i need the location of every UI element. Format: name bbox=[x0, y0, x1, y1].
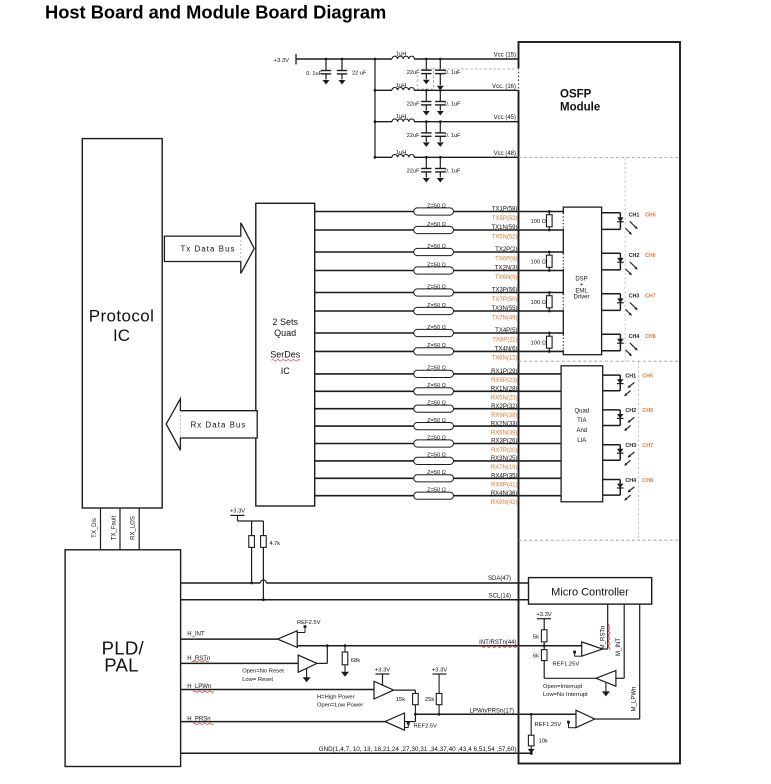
node INT junction A bbox=[326, 644, 329, 647]
transmission line Z=50 (RX 2) bbox=[414, 388, 454, 395]
svg-text:CH6: CH6 bbox=[642, 408, 653, 414]
incident light arrow CH1 a bbox=[630, 382, 634, 386]
wire H_LPWn bbox=[181, 689, 374, 691]
svg-text:RX5P(23): RX5P(23) bbox=[491, 378, 517, 384]
svg-text:TX3P(56): TX3P(56) bbox=[492, 288, 518, 294]
svg-text:RX7N(19): RX7N(19) bbox=[491, 465, 518, 471]
emission arrow CH3 b bbox=[626, 309, 630, 313]
dotted pin edge DSP pair 1 bbox=[562, 213, 564, 229]
svg-text:CH2: CH2 bbox=[629, 253, 640, 259]
node Vcc branch 3 bbox=[374, 120, 377, 123]
wire laser loop CH2 bottom bbox=[602, 269, 621, 271]
emission arrow CH3 a bbox=[630, 302, 636, 308]
buffer U9 (LPW) bbox=[374, 681, 394, 699]
capacitor 0.1uF C6 bbox=[439, 90, 441, 101]
resistor 100 Ohm (pair 3) bbox=[548, 293, 550, 296]
resistor 100 Ohm (pair 4) bbox=[548, 333, 550, 336]
svg-text:1uH: 1uH bbox=[396, 150, 406, 156]
svg-text:RX2P(32): RX2P(32) bbox=[491, 404, 517, 410]
node branch 2 cap B bbox=[439, 89, 442, 92]
incident light arrow CH1 b bbox=[626, 391, 630, 395]
wire photodiode loop CH3 top bbox=[603, 444, 621, 446]
dashed partition line (top of Tx optics) bbox=[519, 157, 681, 159]
capacitor 0.1uF (input bypass) bbox=[325, 59, 327, 71]
node 25k bottom bbox=[438, 713, 441, 716]
inductor 1uH L2 bbox=[392, 88, 414, 91]
wire TX_Fault bbox=[119, 508, 121, 550]
svg-text:22uF: 22uF bbox=[407, 102, 420, 108]
svg-text:RX3N(25): RX3N(25) bbox=[491, 456, 518, 462]
svg-text:CH7: CH7 bbox=[645, 294, 656, 300]
svg-text:TX_Dis: TX_Dis bbox=[92, 518, 98, 538]
wire laser loop CH4 top bbox=[602, 333, 621, 335]
node branch 4 cap B bbox=[439, 156, 442, 159]
laser diode CH3 bbox=[617, 298, 624, 302]
wire laser loop CH3 top bbox=[602, 293, 621, 295]
svg-text:CH2: CH2 bbox=[625, 408, 636, 414]
node termination bottom 2 bbox=[548, 269, 551, 272]
node branch 2 cap A bbox=[425, 89, 428, 92]
svg-text:Z=50 Ω: Z=50 Ω bbox=[427, 284, 446, 290]
svg-text:Z=50 Ω: Z=50 Ω bbox=[427, 401, 446, 407]
svg-text:15k: 15k bbox=[396, 697, 405, 703]
wire laser loop CH1 right bbox=[619, 213, 621, 230]
transmission line Z=50 (RX 5) bbox=[414, 440, 454, 447]
dotted pin edge DSP pair 3 bbox=[562, 294, 564, 310]
wire laser loop CH2 top bbox=[602, 252, 621, 254]
node divider junction bbox=[543, 644, 546, 647]
wire SCL pullup lead bbox=[262, 547, 264, 599]
wire photodiode loop CH4 bottom bbox=[603, 494, 621, 496]
node termination bottom 4 bbox=[548, 350, 551, 353]
node termination bottom 3 bbox=[548, 310, 551, 313]
svg-text:Rx Data Bus: Rx Data Bus bbox=[191, 421, 247, 430]
svg-text:5k: 5k bbox=[533, 635, 539, 641]
svg-text:Module: Module bbox=[560, 102, 600, 114]
transmission line Z=50 (TX3P) bbox=[414, 289, 454, 296]
svg-text:CH8: CH8 bbox=[645, 334, 656, 340]
svg-text:0. 1uF: 0. 1uF bbox=[445, 70, 461, 76]
wire RX_LOS bbox=[138, 508, 140, 550]
svg-text:TIA: TIA bbox=[577, 418, 586, 424]
wire TX_Dis bbox=[100, 508, 102, 550]
svg-text:+3.3V: +3.3V bbox=[432, 668, 447, 674]
node 15k bottom bbox=[414, 713, 417, 716]
wire photodiode loop CH2 right bbox=[619, 410, 621, 426]
wire RX trace 2 bbox=[315, 390, 561, 392]
wire U11 output to MC bbox=[603, 648, 608, 650]
svg-text:PAL: PAL bbox=[104, 655, 139, 676]
Micro Controller box U4 bbox=[529, 578, 652, 605]
wire photodiode loop CH1 bottom bbox=[603, 390, 621, 392]
wire laser loop CH4 right bbox=[619, 334, 621, 351]
svg-text:RX6P(38): RX6P(38) bbox=[491, 413, 517, 419]
wire H_PRSn bbox=[181, 721, 385, 723]
svg-text:Z=50 Ω: Z=50 Ω bbox=[427, 262, 446, 268]
svg-text:TX2N(3): TX2N(3) bbox=[495, 266, 518, 272]
Protocol IC box U1 bbox=[82, 139, 162, 508]
svg-text:REF1.25V: REF1.25V bbox=[535, 722, 562, 728]
svg-text:Z=50 Ω: Z=50 Ω bbox=[427, 383, 446, 389]
svg-text:CH4: CH4 bbox=[629, 334, 640, 340]
wire vertical Vcc feed rail bbox=[374, 59, 376, 157]
dashed extension line to module bbox=[434, 68, 519, 70]
svg-text:M_LPWn: M_LPWn bbox=[631, 687, 637, 712]
capacitor 0.1uF C8 bbox=[439, 122, 441, 133]
transmission line Z=50 (TX2P) bbox=[414, 248, 454, 255]
svg-text:CH4: CH4 bbox=[625, 478, 636, 484]
wire INT/RSTn net bbox=[297, 645, 582, 647]
incident light arrow CH3 a bbox=[630, 452, 634, 456]
svg-text:Z=50 Ω: Z=50 Ω bbox=[427, 222, 446, 228]
svg-text:22uF: 22uF bbox=[407, 70, 420, 76]
svg-text:TX6P(8): TX6P(8) bbox=[495, 256, 517, 262]
node input cap 2 bbox=[341, 58, 344, 61]
transmission line Z=50 (RX 4) bbox=[414, 423, 454, 430]
node termination bottom 1 bbox=[548, 229, 551, 232]
resistor 4.7k (SCL pullup) bbox=[261, 536, 267, 548]
wire TX4N trace bbox=[315, 350, 564, 352]
incident light arrow CH2 b bbox=[626, 425, 630, 429]
svg-text:0. 1uF: 0. 1uF bbox=[445, 102, 461, 108]
transmission line Z=50 (TX4N) bbox=[414, 348, 454, 355]
svg-text:Vcc (48): Vcc (48) bbox=[494, 151, 516, 157]
svg-text:IC: IC bbox=[281, 366, 291, 376]
wire U13 output to MC bbox=[595, 718, 640, 720]
photodiode CH4 bbox=[617, 484, 624, 488]
svg-text:Z=50 Ω: Z=50 Ω bbox=[427, 488, 446, 494]
wire SDA pullup lead bbox=[251, 547, 253, 583]
incident light arrow CH4 a bbox=[630, 487, 634, 491]
wire 6k to U12 output bbox=[543, 661, 545, 679]
wire U9 output bbox=[394, 689, 416, 691]
wire TX1P trace bbox=[315, 211, 564, 213]
dotted segment on module edge (Vcc group) bbox=[517, 68, 519, 90]
svg-text:M_RSTn: M_RSTn bbox=[600, 626, 606, 650]
wire Vcc branch 3 bbox=[375, 121, 392, 123]
svg-text:+3.3V: +3.3V bbox=[536, 612, 551, 618]
wire RX trace 3 bbox=[315, 408, 561, 410]
ground stub U12 bbox=[605, 683, 607, 692]
capacitor 22uF C7 bbox=[425, 122, 427, 133]
resistor 68k bbox=[344, 646, 346, 652]
svg-text:Low= Reset: Low= Reset bbox=[242, 677, 273, 683]
capacitor 22uF (input bulk) bbox=[341, 59, 343, 71]
svg-text:TX3N(55): TX3N(55) bbox=[491, 306, 517, 312]
REF2.5V tap on U10 bbox=[405, 727, 409, 729]
svg-text:25k: 25k bbox=[425, 697, 434, 703]
wire photodiode loop CH4 right bbox=[619, 480, 621, 496]
transmission line Z=50 (TX1N) bbox=[414, 226, 454, 233]
transmission line Z=50 (TX1P) bbox=[414, 208, 454, 215]
svg-text:Low=No Interrupt: Low=No Interrupt bbox=[543, 692, 588, 698]
wire RX trace 6 bbox=[315, 460, 561, 462]
node branch 1 cap A bbox=[425, 58, 428, 61]
svg-text:CH7: CH7 bbox=[642, 443, 653, 449]
svg-text:Open=No Reset: Open=No Reset bbox=[242, 669, 284, 675]
svg-text:+3.3V: +3.3V bbox=[274, 58, 289, 64]
wire RX trace 7 bbox=[315, 477, 561, 479]
node Vcc branch 1 bbox=[374, 58, 377, 61]
dotted pin edge DSP pair 2 bbox=[562, 254, 564, 270]
wire GND bus bbox=[181, 752, 532, 754]
node INT junction B bbox=[344, 644, 347, 647]
wire Vcc branch 2 bbox=[375, 89, 392, 91]
Rx Data Bus arrow bbox=[166, 399, 257, 451]
wire laser loop CH4 bottom bbox=[602, 350, 621, 352]
emission arrow CH1 b bbox=[626, 228, 630, 232]
emission arrow CH4 a bbox=[630, 343, 636, 349]
svg-text:68k: 68k bbox=[351, 658, 360, 664]
svg-text:LIA: LIA bbox=[577, 438, 586, 444]
svg-text:4.7k: 4.7k bbox=[270, 541, 281, 547]
wire H_INT bbox=[181, 638, 278, 640]
svg-text:6k: 6k bbox=[533, 654, 539, 660]
svg-text:CH1: CH1 bbox=[625, 373, 636, 379]
photodiode CH2 bbox=[617, 414, 624, 418]
svg-text:Z=50 Ω: Z=50 Ω bbox=[427, 303, 446, 309]
svg-text:CH5: CH5 bbox=[645, 213, 656, 219]
dotted pin edge DSP pair 4 bbox=[562, 335, 564, 350]
emission arrow CH4 b bbox=[626, 350, 630, 354]
ground stub U8 bbox=[306, 669, 308, 678]
wire TX1N trace bbox=[315, 229, 564, 231]
wire +3.3V rail bbox=[296, 58, 375, 60]
PLD/PAL box U3 bbox=[65, 550, 181, 767]
comparator U11 (M_RSTn) bbox=[582, 642, 603, 656]
resistor 4.7k (SDA pullup) bbox=[249, 536, 255, 548]
node input cap 1 bbox=[325, 58, 328, 61]
OSFP Module outline bbox=[519, 42, 681, 764]
comparator U7 (INT, output to host) bbox=[278, 631, 298, 648]
wire Vcc branch 1 bbox=[375, 58, 392, 60]
resistor 15k bbox=[413, 693, 419, 704]
wire photodiode loop CH3 bottom bbox=[603, 459, 621, 461]
svg-text:RX7P(20): RX7P(20) bbox=[491, 448, 517, 454]
dashed group box around branch-1 caps bbox=[417, 69, 433, 89]
svg-text:Z=50 Ω: Z=50 Ω bbox=[427, 418, 446, 424]
inductor 1uH L3 bbox=[392, 119, 414, 122]
ground arrow 10k bbox=[528, 749, 535, 754]
svg-text:RX8P(41): RX8P(41) bbox=[491, 483, 517, 489]
svg-text:RX5N(22): RX5N(22) bbox=[491, 396, 518, 402]
wire photodiode loop CH3 right bbox=[619, 445, 621, 461]
svg-text:Open=Interrupt: Open=Interrupt bbox=[543, 684, 583, 690]
svg-text:CH8: CH8 bbox=[642, 478, 653, 484]
svg-text:CH3: CH3 bbox=[629, 294, 640, 300]
wire TX3N trace bbox=[315, 310, 564, 312]
dashed partition line (Tx/Rx optics boundary) bbox=[519, 360, 681, 362]
svg-text:CH6: CH6 bbox=[645, 253, 656, 259]
wire photodiode loop CH2 bottom bbox=[603, 425, 621, 427]
emission arrow CH1 a bbox=[630, 221, 636, 227]
wire LPWn/PRSn net bbox=[415, 713, 576, 715]
svg-text:TX4N(6): TX4N(6) bbox=[495, 347, 518, 353]
svg-text:Quad: Quad bbox=[274, 328, 296, 338]
wire U12 input from MC bbox=[616, 677, 624, 679]
svg-text:RX6N(39): RX6N(39) bbox=[491, 430, 518, 436]
resistor 10k bbox=[530, 714, 532, 735]
svg-text:H=High Power: H=High Power bbox=[317, 695, 355, 701]
REF2.5V tap on U7 bbox=[297, 632, 305, 634]
svg-text:REF2.5V: REF2.5V bbox=[297, 620, 321, 626]
svg-text:+3.3V: +3.3V bbox=[230, 509, 245, 515]
wire photodiode loop CH4 top bbox=[603, 479, 621, 481]
node termination top 2 bbox=[548, 251, 551, 254]
capacitor 22uF C9 bbox=[425, 157, 427, 168]
svg-text:RX3P(26): RX3P(26) bbox=[491, 439, 517, 445]
node SCL pullup bbox=[262, 598, 265, 601]
transmission line Z=50 (RX 1) bbox=[414, 370, 454, 377]
svg-text:TX6N(9): TX6N(9) bbox=[495, 275, 518, 281]
wire hop on SDA bbox=[260, 580, 266, 583]
buffer U12 (M_INT) bbox=[596, 671, 616, 687]
svg-text:Quad: Quad bbox=[574, 409, 589, 415]
wire RX trace 1 bbox=[315, 373, 561, 375]
node termination top 4 bbox=[548, 332, 551, 335]
svg-text:100 Ω: 100 Ω bbox=[531, 300, 547, 306]
transmission line Z=50 (TX3N) bbox=[414, 307, 454, 314]
dashed partition line (bottom of Rx optics) bbox=[519, 539, 681, 541]
svg-text:0. 1uF: 0. 1uF bbox=[445, 169, 461, 175]
transmission line Z=50 (RX 6) bbox=[414, 457, 454, 464]
svg-text:+3.3V: +3.3V bbox=[375, 668, 390, 674]
laser diode CH2 bbox=[617, 258, 624, 262]
capacitor 0.1uF C10 bbox=[439, 157, 441, 168]
svg-text:RX2N(33): RX2N(33) bbox=[491, 421, 518, 427]
wire SDA bbox=[181, 582, 261, 584]
svg-text:1uH: 1uH bbox=[396, 114, 406, 120]
svg-text:REF2.5V: REF2.5V bbox=[414, 724, 438, 730]
svg-text:Vcc (45): Vcc (45) bbox=[494, 115, 516, 121]
svg-text:RX4N(36): RX4N(36) bbox=[491, 491, 518, 497]
svg-text:Protocol: Protocol bbox=[89, 307, 155, 326]
svg-text:TX8P(11): TX8P(11) bbox=[492, 337, 517, 343]
resistor 5k bbox=[541, 630, 547, 642]
wire laser loop CH3 bottom bbox=[602, 309, 621, 311]
svg-text:TX5P(53): TX5P(53) bbox=[492, 216, 518, 222]
svg-text:2 Sets: 2 Sets bbox=[272, 317, 298, 327]
dashed vertical line (Tx optics) bbox=[624, 158, 626, 362]
svg-text:CH3: CH3 bbox=[625, 443, 636, 449]
svg-text:22uF: 22uF bbox=[407, 133, 420, 139]
svg-text:CH1: CH1 bbox=[629, 213, 640, 219]
comparator U13 (M_LPWn) bbox=[576, 710, 595, 728]
svg-text:TX7P(50): TX7P(50) bbox=[492, 297, 518, 303]
wire photodiode loop CH2 top bbox=[603, 409, 621, 411]
svg-text:TX2P(2): TX2P(2) bbox=[495, 247, 517, 253]
Tx Data Bus arrow bbox=[164, 223, 254, 274]
svg-text:Z=50 Ω: Z=50 Ω bbox=[427, 453, 446, 459]
node termination top 3 bbox=[548, 291, 551, 294]
svg-text:Z=50 Ω: Z=50 Ω bbox=[427, 470, 446, 476]
svg-text:TX8N(12): TX8N(12) bbox=[491, 356, 517, 362]
svg-text:SDA(47): SDA(47) bbox=[488, 576, 511, 582]
buffer U10 (PRSn to host) bbox=[385, 713, 405, 730]
svg-text:Micro Controller: Micro Controller bbox=[551, 587, 629, 599]
wire H_RSTn bbox=[181, 662, 299, 664]
wire RX trace 4 bbox=[315, 425, 561, 427]
svg-text:TX4P(5): TX4P(5) bbox=[495, 328, 517, 334]
wire RX trace 8 bbox=[315, 495, 561, 497]
resistor 100 Ohm (pair 1) bbox=[548, 212, 550, 215]
svg-text:SerDes: SerDes bbox=[270, 350, 301, 360]
node Vcc branch 2 bbox=[374, 89, 377, 92]
svg-text:REF1.25V: REF1.25V bbox=[553, 662, 580, 668]
svg-text:Open=Low Power: Open=Low Power bbox=[317, 703, 363, 709]
svg-text:10k: 10k bbox=[539, 739, 548, 745]
resistor 25k bbox=[438, 674, 440, 693]
emission arrow CH2 a bbox=[630, 262, 636, 268]
svg-text:Z=50 Ω: Z=50 Ω bbox=[427, 244, 446, 250]
svg-text:100 Ω: 100 Ω bbox=[531, 219, 547, 225]
incident light arrow CH2 a bbox=[630, 417, 634, 421]
REF tap on U13 bbox=[569, 727, 577, 729]
node branch 4 cap A bbox=[425, 156, 428, 159]
svg-text:GND(1,4,7, 10, 13, 18,21,24 ,2: GND(1,4,7, 10, 13, 18,21,24 ,27,30,31 ,3… bbox=[319, 746, 517, 753]
wire pullup feed bbox=[237, 515, 239, 521]
svg-text:IC: IC bbox=[113, 326, 130, 345]
transmission line Z=50 (TX4P) bbox=[414, 329, 454, 336]
dashed vertical line (Rx optics) bbox=[638, 361, 640, 540]
photodiode CH1 bbox=[617, 379, 624, 383]
wire laser loop CH3 right bbox=[619, 294, 621, 311]
svg-text:Z=50 Ω: Z=50 Ω bbox=[427, 435, 446, 441]
svg-text:Host Board and Module Board Di: Host Board and Module Board Diagram bbox=[45, 2, 386, 23]
SerDes IC box U2 bbox=[256, 203, 315, 506]
svg-text:RX8N(42): RX8N(42) bbox=[491, 500, 518, 506]
transmission line Z=50 (RX 8) bbox=[414, 492, 454, 499]
laser diode CH4 bbox=[617, 339, 624, 343]
svg-text:Driver: Driver bbox=[574, 295, 590, 301]
wire photodiode loop CH1 right bbox=[619, 375, 621, 391]
wire TX2P trace bbox=[315, 251, 564, 253]
+3.3V supply terminal bbox=[295, 54, 297, 65]
svg-text:LPWn/PRSn(17): LPWn/PRSn(17) bbox=[470, 708, 514, 714]
svg-text:TX5N(52): TX5N(52) bbox=[491, 234, 517, 240]
wire SCL bbox=[181, 599, 529, 601]
REF tap on U11 bbox=[575, 655, 582, 657]
svg-text:1uH: 1uH bbox=[396, 83, 406, 89]
node SDA pullup bbox=[250, 582, 253, 585]
svg-text:RX1N(28): RX1N(28) bbox=[491, 387, 518, 393]
svg-text:22 uF: 22 uF bbox=[352, 71, 367, 77]
svg-text:OSFP: OSFP bbox=[560, 89, 592, 101]
node branch 3 cap A bbox=[425, 120, 428, 123]
node Vcc branch 4 bbox=[374, 156, 377, 159]
svg-text:Vcc. (16): Vcc. (16) bbox=[492, 84, 516, 90]
incident light arrow CH4 b bbox=[626, 495, 630, 499]
resistor 100 Ohm (pair 2) bbox=[548, 252, 550, 255]
node branch 1 cap B bbox=[439, 58, 442, 61]
node termination top 1 bbox=[548, 210, 551, 213]
svg-text:CH5: CH5 bbox=[642, 373, 653, 379]
transmission line Z=50 (TX2N) bbox=[414, 267, 454, 274]
svg-text:RX4P(35): RX4P(35) bbox=[491, 474, 517, 480]
inductor 1uH L1 bbox=[392, 56, 414, 59]
svg-text:RX_LOS: RX_LOS bbox=[131, 516, 137, 540]
capacitor 22uF C5 bbox=[425, 90, 427, 101]
svg-text:INT/RSTn(44): INT/RSTn(44) bbox=[479, 640, 516, 646]
wire laser loop CH1 bottom bbox=[602, 228, 621, 230]
svg-text:22uF: 22uF bbox=[407, 169, 420, 175]
svg-text:Vcc (15): Vcc (15) bbox=[494, 53, 516, 59]
wire laser loop CH2 right bbox=[619, 253, 621, 270]
svg-text:100 Ω: 100 Ω bbox=[531, 259, 547, 265]
svg-text:TX_Fault: TX_Fault bbox=[112, 515, 118, 540]
capacitor 0.1uF C4 bbox=[439, 59, 441, 70]
DSP + EML Driver box U5 bbox=[563, 207, 601, 355]
